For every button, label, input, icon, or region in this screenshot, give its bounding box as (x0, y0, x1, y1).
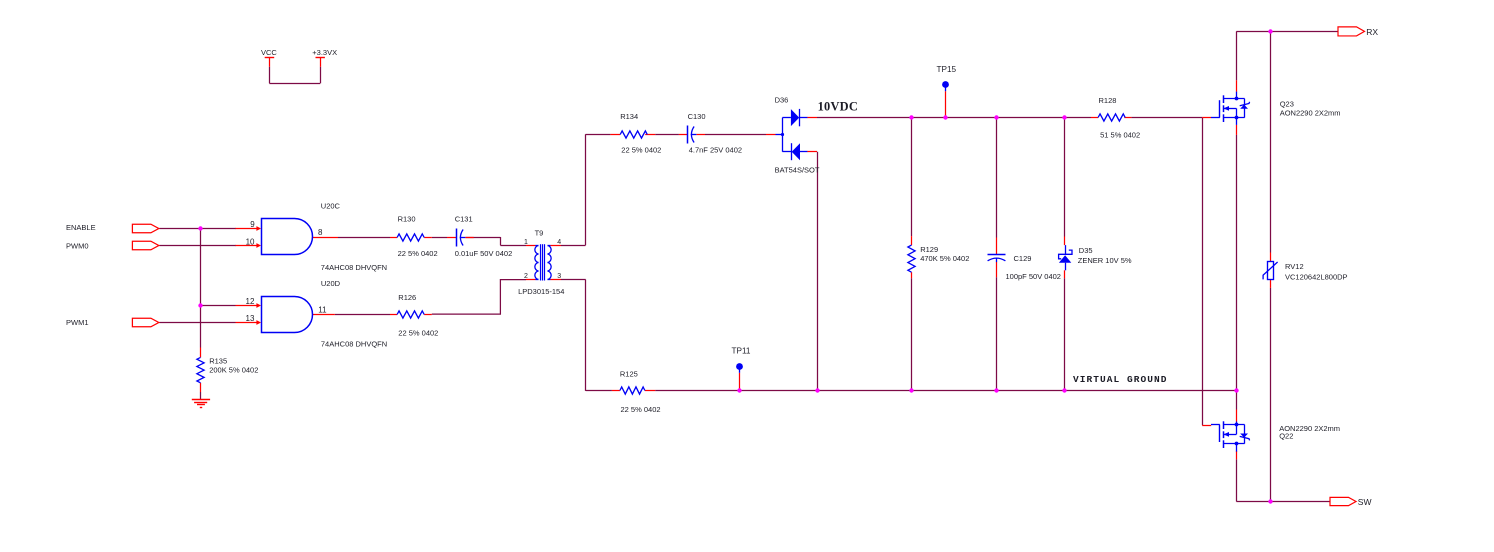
svg-text:PWM1: PWM1 (66, 318, 89, 327)
svg-text:LPD3015-154: LPD3015-154 (518, 287, 564, 296)
svg-text:AON2290 2X2mm: AON2290 2X2mm (1280, 109, 1341, 118)
svg-text:TP11: TP11 (732, 346, 751, 355)
svg-text:4: 4 (557, 239, 561, 246)
svg-text:22 5% 0402: 22 5% 0402 (398, 329, 438, 338)
svg-text:D36: D36 (775, 96, 789, 105)
svg-text:C129: C129 (1014, 254, 1032, 263)
svg-text:+3.3VX: +3.3VX (312, 48, 337, 57)
svg-text:TP15: TP15 (937, 65, 957, 74)
svg-text:C131: C131 (455, 215, 473, 224)
svg-text:R126: R126 (398, 293, 416, 302)
svg-text:4.7nF 25V 0402: 4.7nF 25V 0402 (689, 146, 742, 155)
svg-text:74AHC08 DHVQFN: 74AHC08 DHVQFN (321, 263, 387, 272)
svg-text:ZENER 10V 5%: ZENER 10V 5% (1078, 256, 1132, 265)
svg-text:0.01uF 50V 0402: 0.01uF 50V 0402 (455, 249, 513, 258)
svg-text:RV12: RV12 (1285, 262, 1304, 271)
svg-text:1: 1 (524, 239, 528, 246)
svg-text:9: 9 (250, 220, 255, 229)
svg-text:11: 11 (318, 306, 327, 315)
svg-text:VC120642L800DP: VC120642L800DP (1285, 273, 1348, 282)
svg-text:R135: R135 (209, 357, 227, 366)
svg-text:Q22: Q22 (1279, 432, 1293, 441)
svg-text:100pF 50V 0402: 100pF 50V 0402 (1006, 272, 1061, 281)
svg-text:BAT54S/SOT: BAT54S/SOT (775, 165, 820, 174)
svg-text:2: 2 (524, 273, 528, 280)
svg-text:200K 5% 0402: 200K 5% 0402 (209, 366, 258, 375)
svg-text:51 5% 0402: 51 5% 0402 (1100, 130, 1140, 139)
svg-text:C130: C130 (688, 112, 706, 121)
svg-text:10VDC: 10VDC (818, 100, 859, 114)
svg-text:8: 8 (318, 228, 323, 237)
svg-text:SW: SW (1358, 497, 1372, 507)
svg-text:R130: R130 (398, 215, 416, 224)
svg-text:22 5% 0402: 22 5% 0402 (621, 146, 661, 155)
svg-text:Q23: Q23 (1280, 99, 1294, 108)
svg-text:U20D: U20D (321, 279, 341, 288)
svg-text:R128: R128 (1099, 96, 1117, 105)
svg-text:22 5% 0402: 22 5% 0402 (621, 405, 661, 414)
svg-text:RX: RX (1366, 27, 1378, 37)
svg-text:PWM0: PWM0 (66, 242, 89, 251)
svg-text:74AHC08 DHVQFN: 74AHC08 DHVQFN (321, 339, 387, 348)
svg-text:470K 5% 0402: 470K 5% 0402 (920, 254, 969, 263)
svg-text:R134: R134 (620, 112, 638, 121)
svg-text:10: 10 (246, 237, 255, 246)
svg-text:12: 12 (246, 297, 255, 306)
svg-text:D35: D35 (1079, 246, 1093, 255)
svg-text:T9: T9 (535, 228, 544, 237)
svg-text:R129: R129 (920, 245, 938, 254)
svg-text:22 5% 0402: 22 5% 0402 (398, 249, 438, 258)
svg-text:3: 3 (557, 273, 561, 280)
svg-text:VIRTUAL GROUND: VIRTUAL GROUND (1073, 374, 1168, 385)
svg-text:13: 13 (246, 314, 255, 323)
svg-text:VCC: VCC (261, 48, 277, 57)
svg-text:U20C: U20C (321, 202, 341, 211)
svg-text:R125: R125 (620, 370, 638, 379)
svg-text:ENABLE: ENABLE (66, 223, 96, 232)
